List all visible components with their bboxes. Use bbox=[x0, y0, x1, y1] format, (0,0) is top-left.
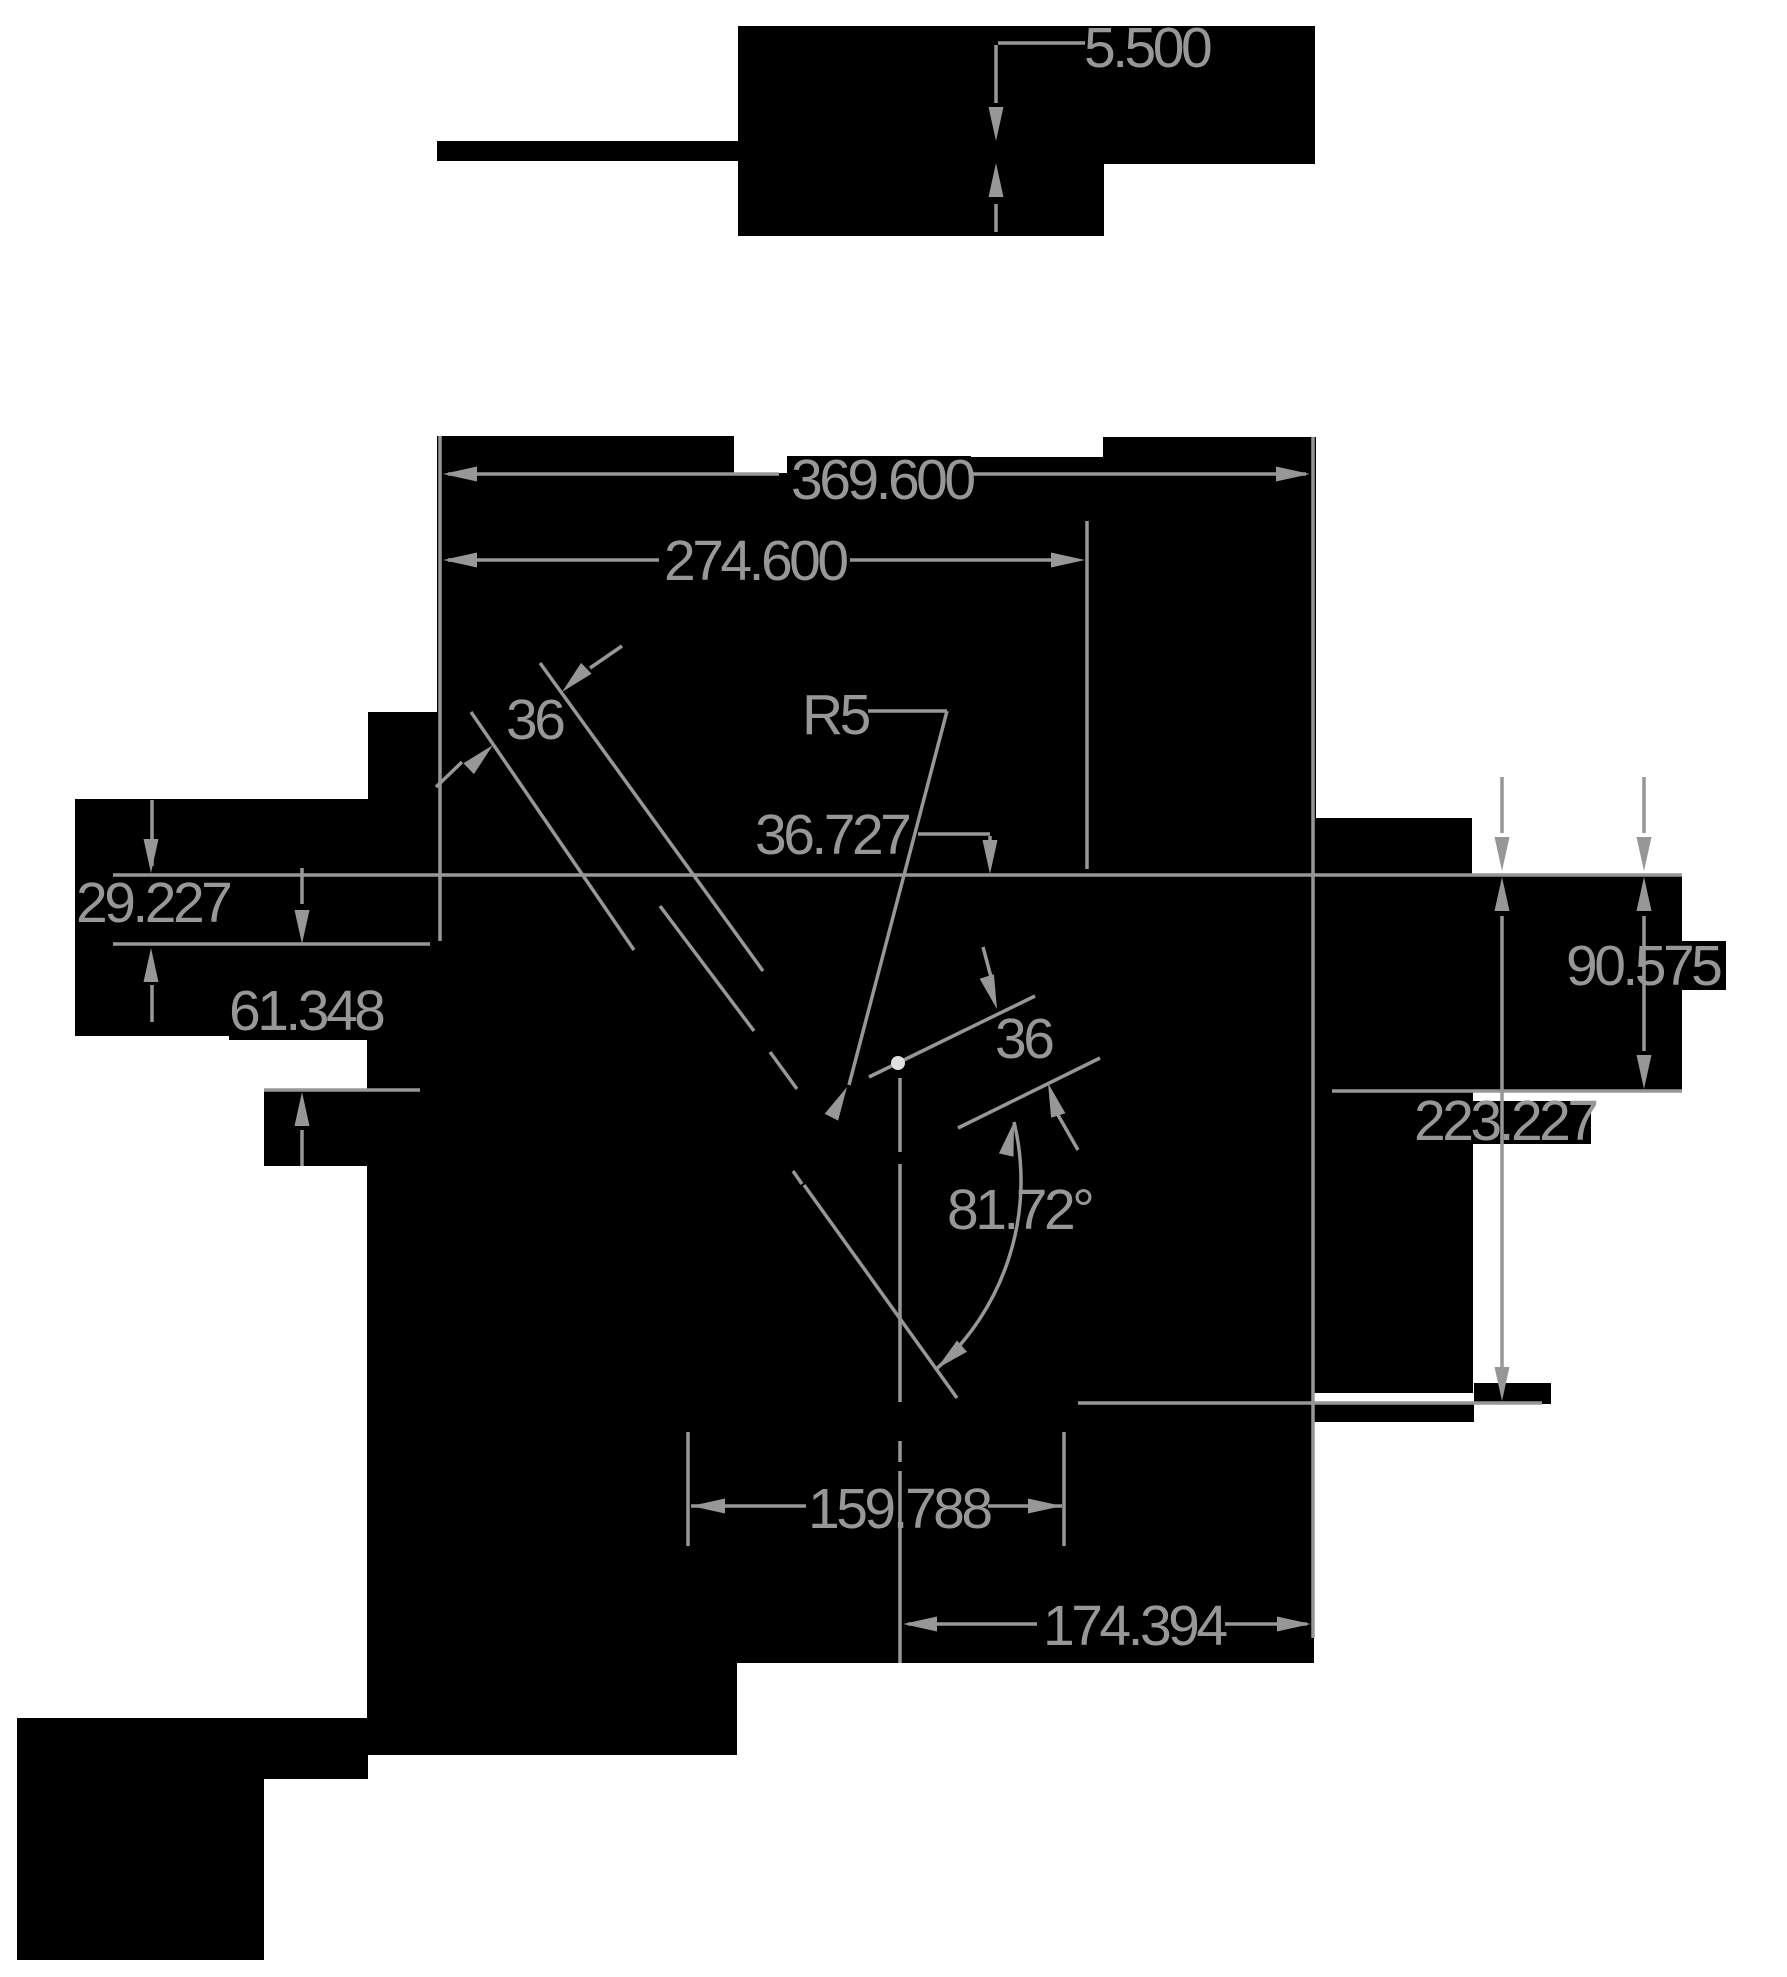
part web bar (side view, 5.500 thick) bbox=[437, 141, 740, 161]
dim 369.600 left arrow bbox=[443, 467, 477, 482]
main plate lower-left portion bbox=[367, 1661, 737, 1755]
svg-text:90.575: 90.575 bbox=[1566, 934, 1721, 998]
dim 369.600 left extension line bbox=[438, 436, 442, 941]
dim R5 leader horizontal bbox=[868, 709, 947, 713]
dim 159.788 left ext tick bbox=[686, 1432, 690, 1546]
dim 90.575 down arrow at y1091 bbox=[1637, 1055, 1652, 1089]
dim 369.600 line right seg bbox=[970, 472, 1306, 476]
dim 159.788 right arrow bbox=[1028, 1499, 1062, 1514]
dim R5 arrowhead bbox=[825, 1087, 847, 1121]
V centerline seg2 bbox=[898, 1164, 902, 1402]
main plate body bbox=[367, 874, 1314, 1663]
dim 274.600 right arrow bbox=[1051, 553, 1085, 568]
dim 223.227 outside stem above bbox=[1500, 777, 1504, 833]
svg-text:R5: R5 bbox=[802, 683, 870, 747]
block: 90.575 cluster right bbox=[1313, 876, 1682, 1091]
dim 5.500 leader stem down bbox=[994, 45, 998, 103]
dim 274.600 left arrow bbox=[443, 553, 477, 568]
slot2 head on upper line bbox=[980, 974, 997, 1009]
dim 36 head on lower wall bbox=[463, 745, 493, 774]
slot upper wall line bbox=[540, 663, 763, 971]
svg-text:81.72°: 81.72° bbox=[947, 1178, 1092, 1242]
dim 223.227 up arrow below ref bbox=[1495, 877, 1510, 911]
block: cluster right of text bbox=[971, 457, 1104, 876]
dim 369.600 right arrow bbox=[1276, 467, 1310, 482]
slot2 upper arrow stem bbox=[983, 947, 991, 977]
dim 174.394 right arrow bbox=[1277, 1617, 1311, 1632]
svg-text:159.788: 159.788 bbox=[808, 1477, 991, 1541]
dim 223.227 outside down arrow above ref bbox=[1495, 837, 1510, 871]
dim 5.500 lower stem bbox=[994, 204, 998, 232]
V centerline seg3b bbox=[898, 1471, 902, 1663]
dim 36.727 stem bbox=[988, 836, 992, 866]
dim 223.227 stem bbox=[1500, 916, 1504, 1384]
V notch left edge bbox=[804, 1185, 957, 1398]
dim 90.575 up arrow below ref bbox=[1637, 877, 1652, 911]
block: upper-left strip of main view bbox=[368, 712, 440, 876]
slot2 head on lower line bbox=[1048, 1083, 1065, 1118]
svg-text:36.727: 36.727 bbox=[755, 803, 909, 867]
dim 274.600 line left seg bbox=[448, 558, 659, 562]
bottom-left strip (flange edge view) bbox=[17, 1718, 368, 1779]
dim 159.788 left arrow bbox=[691, 1499, 725, 1514]
block: cluster right part bbox=[1103, 437, 1316, 896]
dim 29.227 down arrow bbox=[144, 839, 159, 873]
dim 90.575 outside down arrow above ref bbox=[1637, 837, 1652, 871]
angle 81.72 arc bbox=[937, 1122, 1021, 1369]
svg-text:5.500: 5.500 bbox=[1084, 16, 1211, 80]
angle arc upper arrow bbox=[999, 1122, 1014, 1157]
dim 36.727 leader bbox=[918, 832, 990, 836]
dim 29.227 up arrow bbox=[144, 948, 159, 982]
line y944 (29.227 offset) bbox=[113, 942, 430, 946]
V centerline seg3a bbox=[898, 1441, 902, 1462]
dim 223.227 down arrow at y1403 bbox=[1495, 1367, 1510, 1401]
block: 369.600 text bbox bbox=[787, 456, 971, 500]
slot2 upper line through R5 center bbox=[869, 996, 1035, 1077]
svg-text:61.348: 61.348 bbox=[229, 979, 384, 1043]
part flange block (side view) lower-left bbox=[738, 163, 1104, 236]
dim R5 leader diagonal bbox=[849, 711, 947, 1085]
right extension line x1313 bbox=[1311, 437, 1315, 1638]
svg-text:369.600: 369.600 bbox=[791, 448, 974, 512]
block: 223.227 text bbox bbox=[1414, 1101, 1591, 1144]
dim 29.227 lower arrow stem bbox=[150, 985, 154, 1022]
block: 90.575 text bbox bbox=[1566, 941, 1726, 990]
dim 5.500 up arrow bbox=[989, 163, 1004, 197]
reference line y875 (part top edge datum) bbox=[113, 873, 1682, 877]
dim 61.348 down arrow bbox=[295, 910, 310, 944]
block: 29.227/61.348 cluster (left appendix) bbox=[75, 799, 369, 1036]
dim 36 stem beyond upper wall bbox=[590, 646, 622, 668]
svg-text:29.227: 29.227 bbox=[76, 871, 230, 935]
V notch left edge dash bbox=[793, 1171, 802, 1184]
block: 223.227 arrow bbox at line bbox=[1474, 1383, 1551, 1404]
dim 90.575 stem bbox=[1642, 916, 1646, 1051]
dim 369.600 line left seg bbox=[448, 472, 779, 476]
dim 36 head on upper wall bbox=[562, 663, 592, 692]
line y1091 right (90.575 offset) bbox=[1332, 1089, 1682, 1093]
line y1090 left (61.348 offset) bbox=[264, 1088, 420, 1092]
dim 61.348 lower arrow stem bbox=[300, 1130, 304, 1166]
dim 5.500 leader horizontal bbox=[998, 41, 1085, 45]
dim 159.788 right ext tick bbox=[1062, 1432, 1066, 1546]
slot axis dash long bbox=[660, 906, 754, 1031]
svg-text:36: 36 bbox=[995, 1007, 1053, 1071]
dim 159.788 line left seg bbox=[691, 1504, 806, 1508]
dim 29.227 upper arrow stem bbox=[150, 800, 154, 866]
dim 36.727 down arrow bbox=[983, 840, 998, 874]
slot2 lower line bbox=[958, 1058, 1100, 1128]
block: 369.600/274.600 cluster mid bbox=[733, 473, 983, 876]
block: 61.348 text bbox bbox=[229, 986, 377, 1040]
block: 61.348 lower arrow box bbox=[264, 1091, 369, 1166]
dim 61.348 upper arrow stem bbox=[300, 868, 304, 904]
slot2 lower arrow stem bbox=[1058, 1115, 1078, 1150]
angle arc lower arrow bbox=[937, 1341, 967, 1369]
block: right above ref line bbox=[1315, 818, 1472, 875]
block: 369.600 dim cluster left bbox=[437, 436, 734, 876]
dim 90.575 outside stem above bbox=[1642, 777, 1646, 833]
dim 274.600 right extension line bbox=[1085, 521, 1089, 869]
block: 223.227 stem cluster bbox=[1312, 1091, 1473, 1393]
svg-text:223.227: 223.227 bbox=[1414, 1089, 1596, 1153]
svg-text:174.394: 174.394 bbox=[1043, 1594, 1227, 1658]
dim 5.500 down arrow bbox=[989, 107, 1004, 141]
dim 174.394 left arrow bbox=[903, 1617, 937, 1632]
svg-text:36: 36 bbox=[506, 688, 564, 752]
part flange block (side view) upper bbox=[738, 26, 1315, 164]
svg-text:274.600: 274.600 bbox=[664, 529, 847, 593]
slot lower wall line bbox=[471, 712, 634, 950]
slot axis dash short bbox=[770, 1052, 797, 1089]
bottom-left block (flange end view) bbox=[17, 1779, 264, 1960]
dim 61.348 up arrow bbox=[295, 1092, 310, 1126]
V centerline seg1 bbox=[898, 1078, 902, 1152]
block: strip below 223.227 bottom line bbox=[1313, 1402, 1474, 1422]
dim 159.788 line right seg bbox=[988, 1504, 1062, 1508]
dim 36 stem beyond lower wall bbox=[436, 762, 462, 787]
line y1403 (223.227 bottom) bbox=[1078, 1401, 1542, 1405]
dim 274.600 line right seg bbox=[850, 558, 1072, 562]
R5 fillet center point bbox=[891, 1056, 905, 1070]
dim 174.394 line right seg bbox=[1225, 1622, 1307, 1626]
dim 174.394 line left seg bbox=[908, 1622, 1037, 1626]
